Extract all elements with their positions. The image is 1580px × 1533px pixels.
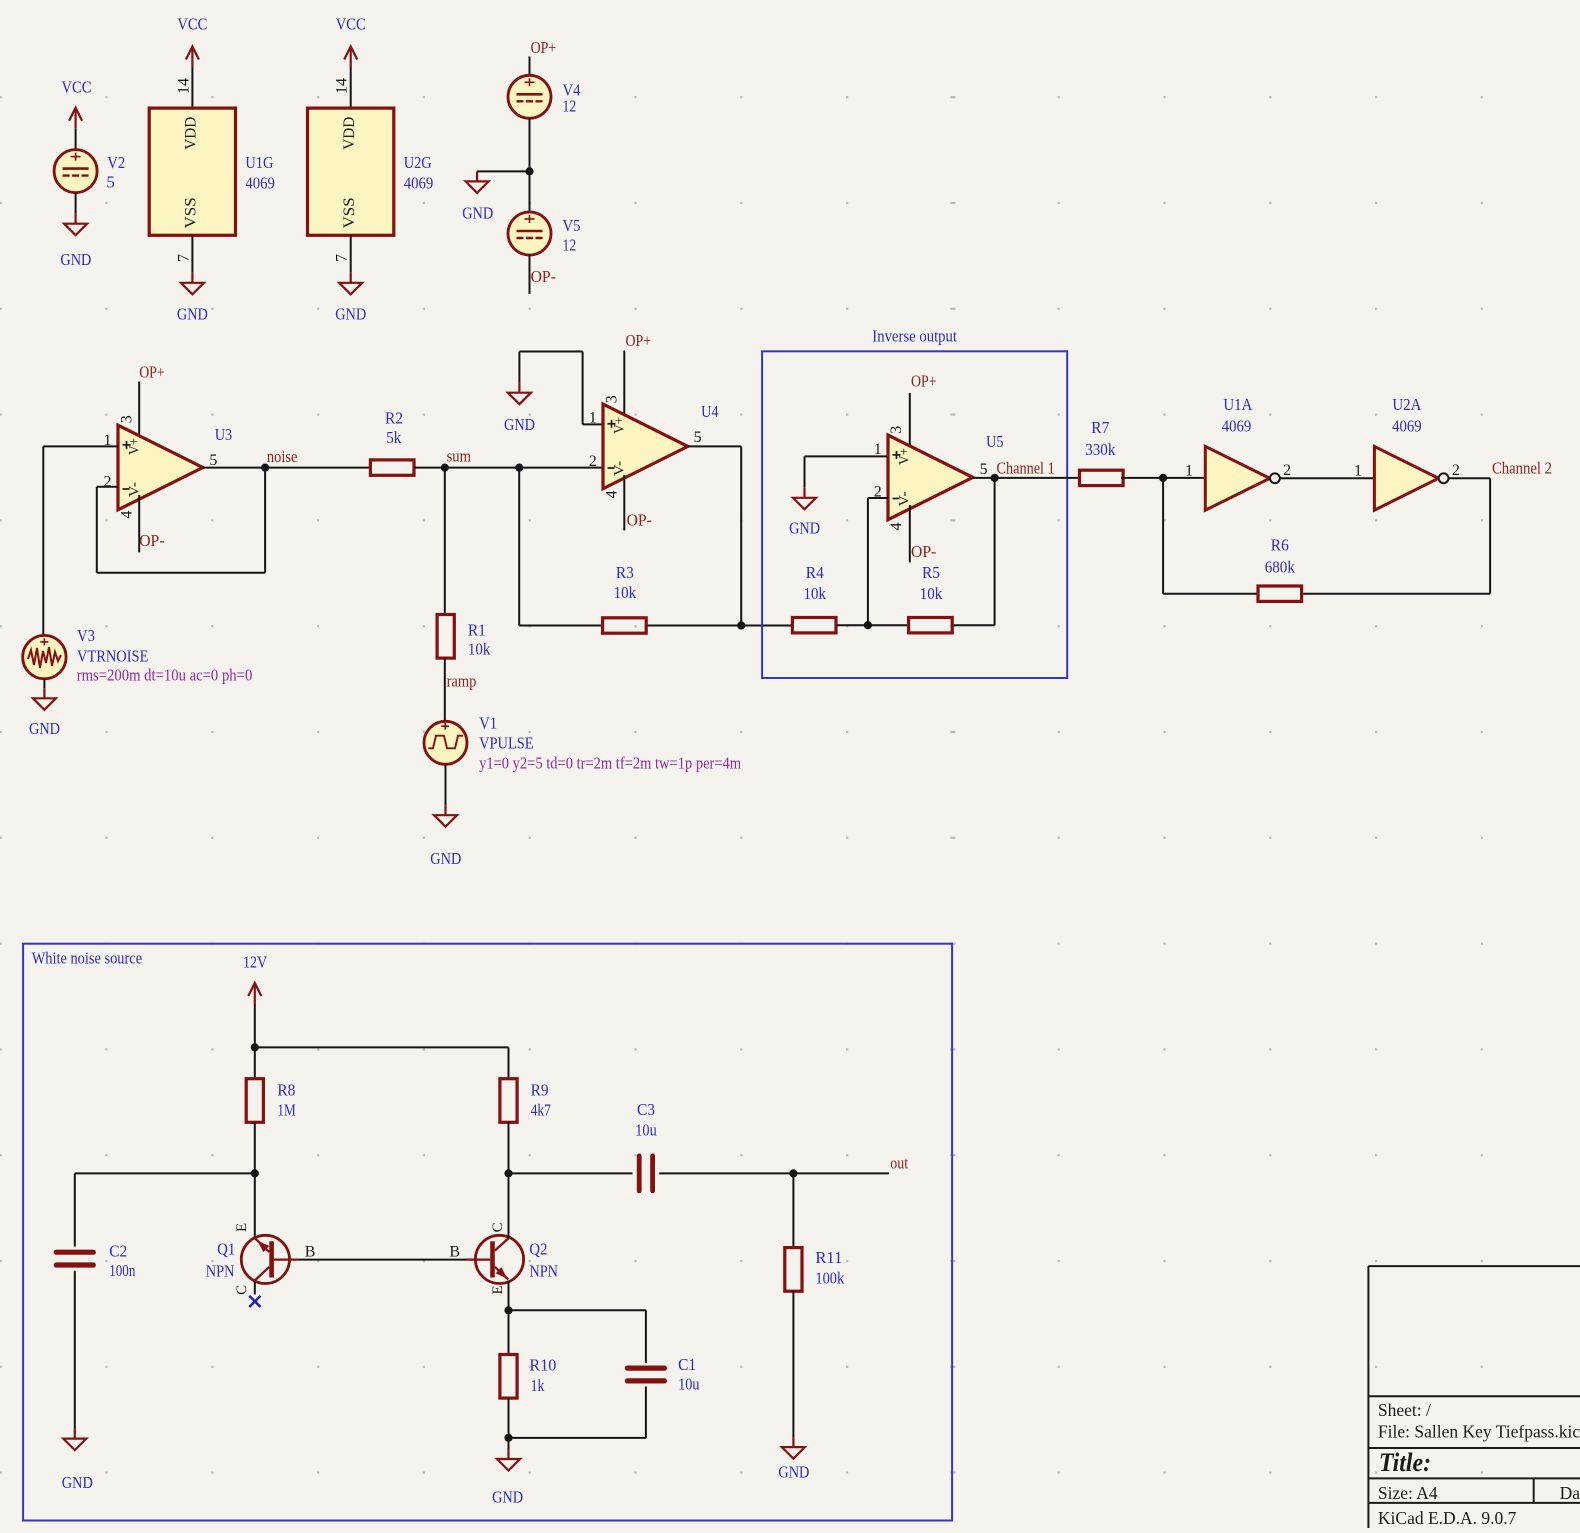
voltage source V4 <box>508 75 581 118</box>
svg-text:NPN: NPN <box>206 1262 235 1281</box>
svg-text:File: Sallen Key Tiefpass.kica: File: Sallen Key Tiefpass.kicad_sch <box>1378 1421 1580 1441</box>
net label OP- <box>531 267 557 286</box>
pin 1 <box>104 432 112 449</box>
svg-text:OP-: OP- <box>531 267 557 286</box>
svg-text:B: B <box>449 1244 460 1261</box>
svg-text:GND: GND <box>335 305 366 324</box>
svg-text:OP+: OP+ <box>911 372 937 391</box>
svg-text:Channel 1: Channel 1 <box>997 459 1055 478</box>
net label OP- (U3) <box>139 531 165 550</box>
resistor R11 100k <box>785 1173 845 1291</box>
resistor R10 1k <box>500 1355 557 1399</box>
svg-text:4: 4 <box>118 511 135 519</box>
capacitor C3 10u <box>635 1100 657 1191</box>
svg-text:3: 3 <box>603 395 620 403</box>
pin 3 <box>118 415 135 423</box>
transistor Q1 NPN <box>206 1235 298 1283</box>
svg-text:2: 2 <box>104 473 112 490</box>
wire U3 +input <box>43 446 118 635</box>
svg-text:12: 12 <box>563 97 577 116</box>
ground GND (V3) <box>29 688 60 738</box>
resistor R4 10k <box>792 563 836 633</box>
svg-text:12V: 12V <box>243 953 268 972</box>
svg-text:GND: GND <box>60 250 91 269</box>
pin 3 wire <box>138 382 140 441</box>
svg-text:C3: C3 <box>637 1100 655 1119</box>
svg-text:VDD: VDD <box>183 117 200 150</box>
wire <box>792 1291 794 1437</box>
pin 4 <box>603 490 620 498</box>
pin 2 <box>874 483 882 500</box>
svg-text:3: 3 <box>118 415 135 423</box>
svg-text:C2: C2 <box>109 1242 127 1261</box>
svg-text:GND: GND <box>177 305 208 324</box>
wire U3 feedback <box>97 468 265 573</box>
svg-text:U3: U3 <box>215 425 233 444</box>
wire <box>529 118 531 212</box>
svg-text:OP-: OP- <box>139 531 165 550</box>
pin 5 <box>980 461 988 478</box>
pin 3 wire <box>623 351 625 418</box>
graphic box White noise source <box>23 944 952 1521</box>
svg-text:R2: R2 <box>385 409 403 428</box>
svg-text:Date:: Date: <box>1560 1483 1580 1503</box>
wire base Q1-Q2 <box>298 1259 466 1261</box>
ground GND (U2G) <box>335 273 366 324</box>
svg-text:sum: sum <box>447 447 471 466</box>
svg-text:1k: 1k <box>531 1376 545 1395</box>
net label Channel 2 <box>1492 459 1552 478</box>
wire to C3 <box>509 1172 633 1174</box>
svg-text:OP-: OP- <box>911 542 937 561</box>
title block text KiCad version <box>1378 1508 1517 1528</box>
svg-text:7: 7 <box>175 254 192 262</box>
title block frame <box>1368 1266 1580 1528</box>
svg-text:5: 5 <box>980 461 988 478</box>
wire <box>445 764 447 805</box>
junction Channel 1 <box>991 474 999 482</box>
net label OP+ (U4) <box>626 331 652 350</box>
svg-text:680k: 680k <box>1265 558 1296 577</box>
svg-text:C1: C1 <box>678 1355 696 1374</box>
svg-text:GND: GND <box>430 849 461 868</box>
svg-text:2: 2 <box>589 453 597 470</box>
net label OP- (U4) <box>627 511 653 530</box>
capacitor C1 10u <box>627 1355 700 1394</box>
resistor R2 5k <box>370 409 414 476</box>
svg-text:V2: V2 <box>107 153 125 172</box>
svg-text:GND: GND <box>29 719 60 738</box>
svg-text:100n: 100n <box>109 1261 136 1280</box>
net label OP+ (U5) <box>911 372 937 391</box>
junction node noise <box>261 464 269 472</box>
svg-text:out: out <box>890 1154 908 1173</box>
svg-text:R1: R1 <box>468 620 486 639</box>
junction out <box>789 1169 797 1177</box>
junction <box>525 167 533 175</box>
svg-text:4069: 4069 <box>245 173 275 192</box>
pin 1 <box>874 441 882 458</box>
net label out <box>890 1154 908 1173</box>
svg-text:4: 4 <box>603 490 620 498</box>
pin 5 <box>694 429 702 446</box>
svg-text:ramp: ramp <box>447 672 477 691</box>
svg-text:3: 3 <box>888 426 905 434</box>
pin 2 (U1A) <box>1283 462 1291 479</box>
pin 3 <box>888 426 905 434</box>
svg-text:VSS: VSS <box>183 197 200 228</box>
junction <box>504 1169 512 1177</box>
svg-text:1M: 1M <box>277 1101 295 1120</box>
svg-text:U2G: U2G <box>404 153 432 172</box>
svg-text:4: 4 <box>888 523 905 531</box>
svg-text:White noise source: White noise source <box>32 949 142 968</box>
junction <box>504 1306 512 1314</box>
title block text File <box>1378 1421 1580 1441</box>
svg-text:330k: 330k <box>1085 440 1116 459</box>
svg-text:1: 1 <box>874 441 882 458</box>
pin 1 <box>589 409 597 426</box>
pin B (Q1) <box>305 1244 316 1261</box>
wire Q2 emitter <box>508 1281 510 1355</box>
wire R6 feedback <box>1163 478 1490 593</box>
wire <box>74 1271 76 1429</box>
pin 2 <box>104 473 112 490</box>
pin 2 <box>589 453 597 470</box>
svg-text:C: C <box>234 1285 250 1295</box>
wire <box>444 468 446 615</box>
svg-text:GND: GND <box>492 1488 523 1507</box>
svg-text:Q1: Q1 <box>217 1240 235 1259</box>
wire <box>75 129 77 150</box>
svg-text:U4: U4 <box>701 402 719 421</box>
op-amp U5 <box>888 432 1004 520</box>
wire <box>191 235 193 272</box>
svg-text:Sheet: /: Sheet: / <box>1378 1400 1431 1420</box>
svg-text:GND: GND <box>504 415 535 434</box>
power flag 12V <box>243 953 268 1005</box>
power unit U1G 4069 <box>149 108 275 235</box>
wire from C1 bottom <box>509 1387 646 1438</box>
svg-text:1: 1 <box>1185 463 1193 480</box>
svg-text:R9: R9 <box>531 1081 549 1100</box>
svg-text:100k: 100k <box>815 1269 844 1288</box>
svg-text:R3: R3 <box>616 563 634 582</box>
junction <box>1159 474 1167 482</box>
svg-text:4069: 4069 <box>1392 417 1422 436</box>
net label OP+ <box>531 38 557 57</box>
wire <box>43 679 45 689</box>
no-connect x <box>249 1296 260 1307</box>
pin 14 <box>334 78 351 94</box>
pin 4 wire <box>623 475 625 531</box>
wire to C2 <box>75 1173 255 1246</box>
junction <box>737 621 745 629</box>
svg-text:VPULSE: VPULSE <box>479 733 533 752</box>
pin B (Q2) <box>449 1244 460 1261</box>
wire U4 output <box>688 446 741 625</box>
svg-text:KiCad E.D.A. 9.0.7: KiCad E.D.A. 9.0.7 <box>1378 1508 1517 1528</box>
wire node out <box>659 1172 889 1174</box>
wire <box>191 68 193 109</box>
wire <box>75 193 77 214</box>
op-amp U4 <box>603 402 719 489</box>
pin 2 (U2A) <box>1452 462 1460 479</box>
svg-text:Channel 2: Channel 2 <box>1492 459 1552 478</box>
svg-text:10k: 10k <box>468 640 491 659</box>
svg-text:2: 2 <box>1452 462 1460 479</box>
svg-text:V-: V- <box>612 461 628 476</box>
svg-text:OP-: OP- <box>627 511 653 530</box>
svg-text:12: 12 <box>563 236 577 255</box>
ground GND (V1) <box>430 805 461 868</box>
svg-text:NPN: NPN <box>529 1262 558 1281</box>
svg-text:R5: R5 <box>922 563 940 582</box>
resistor R3 10k <box>603 563 647 633</box>
voltage source V5 <box>508 212 581 255</box>
junction <box>504 1434 512 1442</box>
power flag VCC (V2) <box>62 77 92 128</box>
svg-text:OP+: OP+ <box>139 363 165 382</box>
wire U5 feedback <box>953 478 994 625</box>
svg-text:R10: R10 <box>529 1356 556 1375</box>
wire node Channel 2 <box>1449 477 1490 479</box>
svg-text:10u: 10u <box>678 1375 700 1394</box>
svg-text:2: 2 <box>1283 462 1291 479</box>
title block text Title <box>1379 1448 1431 1477</box>
svg-text:OP+: OP+ <box>626 331 652 350</box>
svg-text:V+: V+ <box>612 417 628 434</box>
title block text Sheet <box>1378 1400 1431 1420</box>
svg-text:U2A: U2A <box>1392 395 1422 414</box>
net label OP+ (U3) <box>139 363 165 382</box>
svg-text:V-: V- <box>127 482 143 497</box>
wire node sum <box>414 467 603 469</box>
svg-text:OP+: OP+ <box>531 38 557 57</box>
junction <box>864 621 872 629</box>
pin 4 wire <box>138 495 140 552</box>
svg-text:U1A: U1A <box>1223 395 1253 414</box>
inverter U1A 4069 <box>1205 395 1280 510</box>
svg-text:GND: GND <box>789 519 820 538</box>
ground GND (U4) <box>504 383 535 434</box>
wire U5 output Channel 1 <box>973 477 1080 479</box>
svg-text:4069: 4069 <box>1222 417 1252 436</box>
wire U5 -input <box>868 498 888 625</box>
svg-text:14: 14 <box>175 78 192 94</box>
power flag VCC (U2G) <box>336 15 366 68</box>
net label ramp <box>447 672 477 691</box>
svg-text:VCC: VCC <box>336 15 366 34</box>
svg-text:rms=200m dt=10u ac=0 ph=0: rms=200m dt=10u ac=0 ph=0 <box>77 666 253 685</box>
wire <box>836 624 909 626</box>
graphic box Inverse output <box>762 327 1067 679</box>
resistor R5 10k <box>909 563 953 633</box>
svg-text:V-: V- <box>897 491 913 506</box>
power flag VCC (U1G) <box>177 15 207 68</box>
svg-text:10k: 10k <box>920 584 943 603</box>
wire <box>350 68 352 109</box>
svg-text:VSS: VSS <box>341 197 358 228</box>
wire <box>741 625 792 627</box>
pin 14 <box>175 78 192 94</box>
svg-text:GND: GND <box>62 1473 93 1492</box>
pin 1 (U1A) <box>1185 463 1193 480</box>
wire <box>1121 477 1205 479</box>
resistor R1 10k <box>437 615 491 659</box>
junction <box>251 1043 259 1051</box>
svg-text:7: 7 <box>334 254 351 262</box>
svg-text:14: 14 <box>334 78 351 94</box>
wire <box>477 170 529 172</box>
svg-text:E: E <box>490 1285 506 1294</box>
power unit U2G 4069 <box>308 108 434 235</box>
voltage source V2 <box>54 150 125 193</box>
pin 7 <box>175 254 192 262</box>
svg-text:Inverse output: Inverse output <box>872 327 957 346</box>
pin 4 wire <box>909 505 911 562</box>
svg-text:GND: GND <box>778 1463 809 1482</box>
svg-text:E: E <box>234 1223 250 1232</box>
wire <box>529 255 531 294</box>
svg-text:VCC: VCC <box>177 15 207 34</box>
svg-text:noise: noise <box>267 447 298 466</box>
ground GND (U1G) <box>177 273 208 324</box>
svg-text:Title:: Title: <box>1379 1448 1431 1477</box>
wire node ramp <box>444 658 446 721</box>
wire <box>508 1398 510 1449</box>
wire <box>350 235 352 272</box>
svg-text:R11: R11 <box>815 1248 842 1267</box>
inverter U2A 4069 <box>1374 395 1448 510</box>
svg-text:C: C <box>490 1222 506 1232</box>
svg-text:4k7: 4k7 <box>531 1101 552 1120</box>
resistor R6 680k <box>1258 536 1302 602</box>
ground GND (U5) <box>789 488 820 538</box>
svg-text:y1=0 y2=5 td=0 tr=2m tf=2m tw=: y1=0 y2=5 td=0 tr=2m tf=2m tw=1p per=4m <box>479 754 741 773</box>
junction sum <box>441 464 449 472</box>
net label OP- (U5) <box>911 542 937 561</box>
svg-text:Size: A4: Size: A4 <box>1378 1483 1438 1503</box>
svg-text:VCC: VCC <box>62 77 92 96</box>
svg-text:VDD: VDD <box>341 117 358 150</box>
pin 3 <box>603 395 620 403</box>
ground GND (V4/V5) <box>462 171 493 222</box>
title block text Size <box>1378 1483 1438 1503</box>
svg-text:10k: 10k <box>804 584 827 603</box>
junction <box>515 464 523 472</box>
pin C (Q2) <box>490 1222 506 1232</box>
svg-text:V+: V+ <box>897 448 913 465</box>
svg-text:U1G: U1G <box>245 153 273 172</box>
pin 1 (U2A) <box>1354 463 1362 480</box>
svg-text:R4: R4 <box>806 563 824 582</box>
svg-text:GND: GND <box>462 204 493 223</box>
svg-text:5: 5 <box>694 429 702 446</box>
net label sum <box>447 447 471 466</box>
capacitor C2 100n <box>56 1242 135 1281</box>
transistor Q2 NPN <box>466 1235 558 1283</box>
wire to C1 top <box>509 1310 646 1363</box>
pin 7 <box>334 254 351 262</box>
wire Q1 collector <box>254 1281 256 1294</box>
junction <box>251 1169 259 1177</box>
voltage source V3 VTRNOISE <box>23 626 253 684</box>
resistor R7 330k <box>1080 418 1124 486</box>
wire <box>508 1122 510 1238</box>
net label Channel 1 <box>997 459 1055 478</box>
wire U3 output <box>203 467 371 469</box>
svg-text:4069: 4069 <box>404 173 434 192</box>
wire U5 +input to GND <box>805 456 889 487</box>
wire <box>1280 477 1374 479</box>
net label noise <box>267 447 298 466</box>
svg-text:V3: V3 <box>77 626 95 645</box>
svg-text:R8: R8 <box>277 1081 295 1100</box>
svg-text:1: 1 <box>1354 463 1362 480</box>
svg-text:V+: V+ <box>127 438 143 455</box>
voltage source V1 VPULSE <box>424 713 741 772</box>
wire U4 +input to GND <box>519 352 603 425</box>
wire R3 feedback <box>519 468 741 626</box>
svg-text:V1: V1 <box>479 713 497 732</box>
svg-text:VTRNOISE: VTRNOISE <box>77 647 148 666</box>
resistor R9 4k7 <box>500 1079 551 1123</box>
resistor R8 1M <box>246 1079 296 1123</box>
svg-text:Q2: Q2 <box>529 1240 547 1259</box>
wire 12V rail <box>255 1004 509 1079</box>
svg-text:V5: V5 <box>563 216 581 235</box>
pin 4 <box>118 511 135 519</box>
pin 3 wire <box>909 393 911 449</box>
pin 4 <box>888 523 905 531</box>
title block text Date <box>1560 1483 1580 1503</box>
ground GND (R10) <box>492 1449 523 1507</box>
wire <box>529 57 531 76</box>
ground GND (V2) <box>60 214 91 269</box>
pin 5 <box>209 452 217 469</box>
svg-text:5: 5 <box>209 452 217 469</box>
svg-text:1: 1 <box>589 409 597 426</box>
pin E (Q2) <box>490 1285 506 1294</box>
ground GND (R11) <box>778 1437 809 1481</box>
svg-text:B: B <box>305 1244 316 1261</box>
svg-text:R6: R6 <box>1271 536 1289 555</box>
svg-text:5k: 5k <box>386 428 401 447</box>
svg-text:U5: U5 <box>986 432 1004 451</box>
wire <box>254 1122 256 1238</box>
ground GND (C2) <box>62 1429 93 1492</box>
pin E (Q1) <box>234 1223 250 1232</box>
svg-text:10k: 10k <box>614 583 637 602</box>
svg-text:R7: R7 <box>1091 418 1109 437</box>
op-amp U3 <box>118 425 232 510</box>
svg-text:10u: 10u <box>635 1121 657 1140</box>
svg-text:5: 5 <box>106 173 115 192</box>
pin C (Q1) <box>234 1285 250 1295</box>
